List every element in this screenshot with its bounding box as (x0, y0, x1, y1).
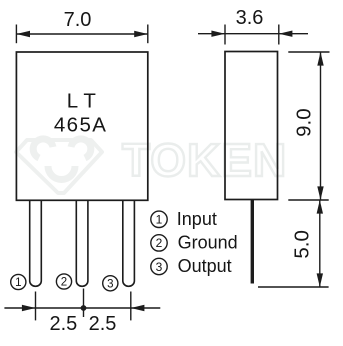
svg-text:T: T (83, 90, 96, 113)
svg-text:Input: Input (177, 209, 217, 229)
svg-text:Output: Output (178, 256, 232, 276)
svg-text:2.5: 2.5 (49, 313, 77, 335)
svg-text:9.0: 9.0 (293, 108, 316, 137)
svg-text:L: L (67, 90, 78, 113)
svg-text:465A: 465A (54, 113, 107, 136)
svg-text:7.0: 7.0 (64, 9, 92, 31)
svg-text:3: 3 (156, 260, 163, 274)
svg-text:2: 2 (61, 277, 67, 289)
svg-text:Ground: Ground (178, 233, 238, 253)
svg-text:TOKEN: TOKEN (122, 134, 287, 186)
svg-text:5.0: 5.0 (290, 230, 313, 259)
svg-text:1: 1 (156, 213, 163, 227)
svg-text:1: 1 (15, 277, 21, 289)
svg-text:3.6: 3.6 (236, 7, 264, 29)
svg-text:3: 3 (107, 279, 113, 291)
svg-text:2: 2 (156, 236, 163, 250)
svg-text:2.5: 2.5 (89, 313, 117, 335)
